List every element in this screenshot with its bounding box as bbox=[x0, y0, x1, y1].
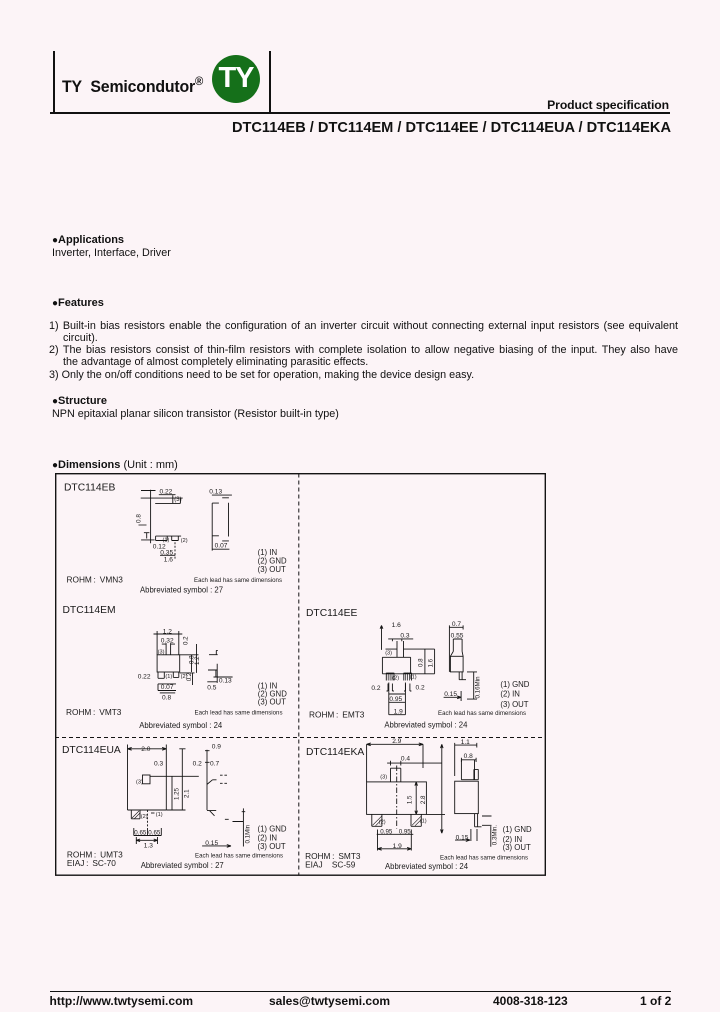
svg-text:2.9: 2.9 bbox=[392, 737, 401, 744]
EM bottom leads bbox=[158, 672, 179, 678]
EUA 0.15 dim bbox=[202, 844, 231, 847]
svg-text:DTC114EE: DTC114EE bbox=[306, 608, 357, 619]
svg-text:Each lead has same dimensions: Each lead has same dimensions bbox=[195, 852, 284, 859]
svg-text:(3): (3) bbox=[385, 650, 392, 656]
EM right ext lines bbox=[180, 644, 199, 673]
svg-text:1.9: 1.9 bbox=[393, 843, 402, 850]
svg-text:0.13: 0.13 bbox=[219, 677, 232, 684]
EKA centerline bbox=[396, 765, 398, 828]
horizontal dashed divider bbox=[55, 736, 546, 738]
svg-text:(3): (3) bbox=[158, 649, 165, 655]
EUA leader line bbox=[150, 775, 199, 777]
svg-text:(2): (2) bbox=[141, 814, 148, 820]
EKA body bbox=[367, 781, 427, 814]
logo box right bar bbox=[269, 51, 271, 112]
svg-text:1.25: 1.25 bbox=[173, 787, 180, 800]
EKA 1.9 dim bbox=[378, 847, 412, 850]
svg-text:1.6: 1.6 bbox=[164, 556, 173, 563]
EKA side body bbox=[455, 781, 479, 813]
title bbox=[232, 120, 671, 136]
svg-text:1.3: 1.3 bbox=[144, 842, 153, 849]
EKA 0.95 dims bbox=[377, 829, 414, 850]
EB side view bbox=[212, 495, 232, 498]
svg-text:2.1: 2.1 bbox=[183, 788, 190, 797]
vertical dashed divider bbox=[298, 473, 300, 875]
svg-text:1.6: 1.6 bbox=[427, 658, 434, 667]
svg-text:1.2: 1.2 bbox=[163, 628, 172, 635]
EE right dim lines bbox=[425, 649, 435, 674]
EUA right dim lines bbox=[166, 748, 185, 809]
EUA body sides bbox=[128, 744, 167, 810]
EE dim 0.3 line bbox=[388, 638, 413, 640]
EUA top dim 2.0 bbox=[128, 747, 167, 750]
EB dim 0.22 underline bbox=[159, 493, 176, 495]
svg-text:0.22: 0.22 bbox=[138, 673, 151, 680]
svg-text:Each lead has same dimensions: Each lead has same dimensions bbox=[195, 709, 284, 716]
EM dim 0.07 box bbox=[158, 683, 176, 690]
EKA side bottom lead bbox=[475, 813, 482, 826]
svg-text:0.13: 0.13 bbox=[209, 488, 222, 495]
svg-text:(2): (2) bbox=[181, 537, 188, 543]
svg-text:0.5: 0.5 bbox=[207, 684, 216, 691]
svg-text:ROHM : EMT3: ROHM : EMT3 bbox=[309, 709, 365, 719]
svg-text:(3) OUT: (3) OUT bbox=[503, 843, 531, 852]
svg-text:EIAJ SC-59: EIAJ SC-59 bbox=[305, 859, 356, 869]
EE 0.95 box bbox=[389, 682, 406, 714]
logo circle TY bbox=[212, 55, 260, 103]
EE side view bbox=[449, 625, 463, 629]
svg-text:2.8: 2.8 bbox=[420, 794, 427, 803]
svg-text:Abbreviated symbol : 24: Abbreviated symbol : 24 bbox=[385, 860, 468, 870]
svg-text:0.07: 0.07 bbox=[161, 684, 174, 691]
footer rule bbox=[50, 991, 672, 992]
svg-text:0.07: 0.07 bbox=[215, 542, 228, 549]
svg-text:0.95: 0.95 bbox=[389, 695, 402, 702]
svg-text:(1) GND: (1) GND bbox=[500, 679, 529, 688]
svg-text:0.65: 0.65 bbox=[134, 829, 147, 836]
EE lead3 bbox=[397, 641, 404, 657]
footer urls bbox=[50, 994, 194, 1008]
EM side view lead bbox=[207, 650, 232, 682]
EE 0.15 dim bbox=[444, 691, 462, 701]
svg-text:(3) OUT: (3) OUT bbox=[258, 564, 286, 573]
header rule bbox=[50, 112, 670, 115]
EKA 0.3min line bbox=[490, 826, 492, 847]
svg-text:0.7: 0.7 bbox=[210, 760, 219, 767]
svg-text:0.95: 0.95 bbox=[380, 828, 393, 835]
svg-text:(3): (3) bbox=[174, 497, 181, 503]
svg-text:Each lead has same dimensions: Each lead has same dimensions bbox=[194, 576, 283, 583]
EKA dim 2.8 line bbox=[426, 744, 445, 833]
applications text bbox=[52, 247, 171, 259]
EUA 0.65 brackets bbox=[134, 828, 162, 836]
EUA side view bbox=[205, 749, 210, 809]
EUA bottom leads bbox=[131, 810, 140, 819]
svg-text:0.9: 0.9 bbox=[212, 743, 221, 750]
svg-text:Abbreviated symbol : 27: Abbreviated symbol : 27 bbox=[141, 859, 224, 869]
product specification bbox=[547, 98, 669, 112]
svg-text:0.7: 0.7 bbox=[452, 621, 461, 628]
svg-text:Abbreviated symbol : 27: Abbreviated symbol : 27 bbox=[140, 584, 223, 594]
svg-text:(1): (1) bbox=[156, 812, 163, 818]
dimensions heading bbox=[52, 459, 178, 471]
svg-text:DTC114EKA: DTC114EKA bbox=[306, 746, 364, 757]
applications heading bbox=[52, 234, 124, 246]
svg-text:(3): (3) bbox=[380, 774, 387, 780]
EE 1.9 box bbox=[389, 713, 406, 715]
features list bbox=[49, 320, 678, 381]
svg-text:DTC114EM: DTC114EM bbox=[63, 605, 116, 616]
logo box left bar bbox=[53, 51, 55, 112]
EM dim 0.8 line bbox=[160, 691, 175, 693]
EKA side view dims bbox=[455, 742, 477, 775]
dimensions table svg bbox=[55, 473, 546, 876]
svg-text:(3): (3) bbox=[136, 779, 143, 785]
EE 0.16min line bbox=[467, 671, 477, 698]
svg-text:(1): (1) bbox=[165, 674, 172, 680]
svg-text:0.15: 0.15 bbox=[205, 839, 218, 846]
svg-text:1.9: 1.9 bbox=[394, 708, 403, 715]
EUA 1.3 dim bbox=[136, 837, 157, 844]
EB top view: lead3 top bar bbox=[141, 495, 183, 503]
EKA bottom leads hatched bbox=[372, 814, 422, 826]
svg-text:Each lead has same dimensions: Each lead has same dimensions bbox=[438, 710, 527, 717]
EE lead feet bbox=[387, 683, 412, 691]
EE dim 1.6 left line w/ arrow bbox=[380, 625, 383, 650]
EB body bottom and leads bbox=[156, 536, 182, 540]
EKA dim 1.5 line bbox=[415, 781, 418, 814]
svg-text:0.15: 0.15 bbox=[456, 834, 469, 841]
features heading bbox=[52, 297, 104, 309]
svg-text:0.3: 0.3 bbox=[154, 760, 163, 767]
svg-text:0.2: 0.2 bbox=[193, 760, 202, 767]
EKA 0.15 dim bbox=[455, 829, 477, 842]
svg-text:(3) OUT: (3) OUT bbox=[258, 697, 286, 706]
structure heading bbox=[52, 395, 107, 407]
svg-text:0.2: 0.2 bbox=[186, 672, 193, 681]
svg-text:2.0: 2.0 bbox=[141, 745, 150, 752]
svg-text:EIAJ : SC-70: EIAJ : SC-70 bbox=[67, 858, 116, 868]
svg-text:0.3Min.: 0.3Min. bbox=[491, 824, 498, 845]
svg-text:(3) OUT: (3) OUT bbox=[258, 842, 286, 851]
svg-text:0.8: 0.8 bbox=[162, 694, 171, 701]
EUA lead3 rect bbox=[143, 775, 151, 784]
EE top edge line bbox=[386, 648, 435, 650]
structure text bbox=[52, 408, 339, 420]
svg-text:(2) IN: (2) IN bbox=[500, 689, 520, 698]
svg-text:(1) GND: (1) GND bbox=[258, 824, 287, 833]
svg-text:0.32: 0.32 bbox=[161, 637, 174, 644]
svg-text:DTC114EUA: DTC114EUA bbox=[62, 744, 121, 755]
EM dim 1.2 lines bbox=[154, 631, 183, 655]
svg-text:(2): (2) bbox=[379, 819, 386, 825]
svg-text:0.2: 0.2 bbox=[416, 684, 425, 691]
svg-text:Abbreviated symbol : 24: Abbreviated symbol : 24 bbox=[384, 719, 467, 729]
svg-text:0.8: 0.8 bbox=[464, 753, 473, 760]
svg-text:1.5: 1.5 bbox=[406, 794, 413, 803]
svg-text:(1): (1) bbox=[420, 818, 427, 824]
svg-text:(1) GND: (1) GND bbox=[503, 824, 532, 833]
svg-text:0.4: 0.4 bbox=[401, 755, 410, 762]
svg-text:ROHM : VMT3: ROHM : VMT3 bbox=[66, 707, 122, 717]
svg-text:0.2: 0.2 bbox=[182, 635, 189, 644]
svg-text:0.3: 0.3 bbox=[400, 632, 409, 639]
EE bottom leads hatched bbox=[386, 672, 411, 680]
EM dim 0.2 lower line bbox=[192, 672, 194, 684]
EUA 0.1min line bbox=[233, 808, 246, 846]
svg-text:DTC114EB: DTC114EB bbox=[64, 482, 115, 493]
svg-text:0.22: 0.22 bbox=[160, 488, 173, 495]
svg-text:(2): (2) bbox=[392, 675, 399, 681]
svg-text:1.2: 1.2 bbox=[194, 655, 201, 664]
logo text TY Semicondutor bbox=[62, 74, 203, 97]
EB dashed ext bbox=[174, 542, 176, 559]
EKA dim 2.9 bbox=[367, 742, 423, 781]
svg-text:0.55: 0.55 bbox=[451, 632, 464, 639]
svg-text:0.95: 0.95 bbox=[399, 828, 412, 835]
svg-text:0.15: 0.15 bbox=[444, 690, 457, 697]
EE body bbox=[382, 657, 434, 674]
svg-text:Abbreviated symbol : 24: Abbreviated symbol : 24 bbox=[139, 719, 222, 729]
EKA side top lead bbox=[461, 759, 478, 779]
EKA dim 0.4 bbox=[387, 760, 442, 765]
svg-text:1.1: 1.1 bbox=[461, 738, 470, 745]
EKA lead3 bbox=[391, 768, 401, 782]
EM body bbox=[157, 654, 180, 671]
EB dim 0.35 line bbox=[160, 554, 175, 556]
svg-text:0.8: 0.8 bbox=[418, 657, 425, 666]
svg-text:(1): (1) bbox=[410, 674, 417, 680]
svg-text:0.8: 0.8 bbox=[136, 513, 143, 522]
svg-text:0.2: 0.2 bbox=[371, 685, 380, 692]
svg-text:(2) IN: (2) IN bbox=[258, 833, 278, 842]
svg-text:0.65: 0.65 bbox=[148, 829, 161, 836]
EM lead3 bbox=[162, 643, 175, 655]
EB left dimension line bbox=[141, 489, 156, 543]
svg-text:0.1Min: 0.1Min bbox=[245, 824, 252, 843]
table outer border bbox=[56, 473, 546, 875]
svg-text:ROHM : VMN3: ROHM : VMN3 bbox=[67, 574, 124, 584]
svg-text:0.16Min: 0.16Min bbox=[475, 675, 482, 698]
svg-text:1.6: 1.6 bbox=[392, 621, 401, 628]
svg-text:(3) OUT: (3) OUT bbox=[500, 699, 528, 708]
